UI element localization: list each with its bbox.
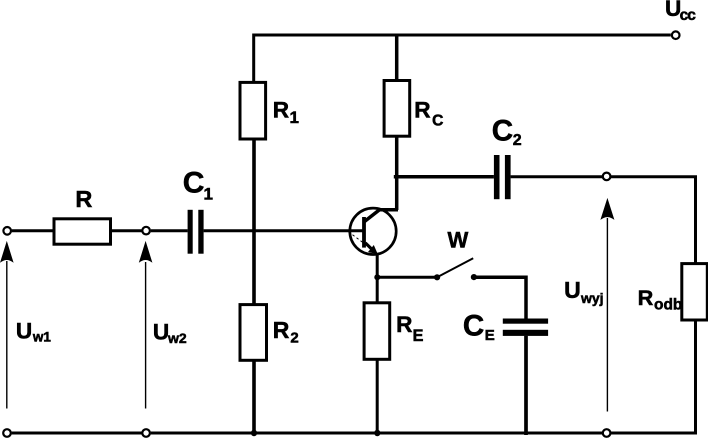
svg-text:wyj: wyj <box>580 290 604 306</box>
svg-text:R: R <box>75 186 92 212</box>
svg-text:C: C <box>432 113 443 130</box>
svg-text:E: E <box>413 327 424 345</box>
svg-text:cc: cc <box>680 7 697 24</box>
svg-text:odb: odb <box>654 296 682 313</box>
svg-text:U: U <box>153 320 169 345</box>
svg-text:R: R <box>273 317 290 343</box>
svg-text:w1: w1 <box>32 330 52 345</box>
svg-text:R: R <box>414 98 430 123</box>
svg-text:U: U <box>564 277 581 303</box>
svg-text:w2: w2 <box>167 330 187 346</box>
svg-text:C: C <box>183 167 205 200</box>
svg-text:R: R <box>273 98 289 123</box>
svg-text:C: C <box>492 114 513 147</box>
svg-text:C: C <box>463 309 484 342</box>
svg-text:R: R <box>638 285 654 310</box>
svg-text:2: 2 <box>513 132 522 149</box>
svg-text:U: U <box>16 319 32 344</box>
svg-text:E: E <box>485 327 495 344</box>
svg-text:1: 1 <box>204 185 213 204</box>
svg-text:2: 2 <box>290 329 298 346</box>
svg-text:1: 1 <box>290 108 299 127</box>
svg-text:W: W <box>448 227 469 252</box>
svg-text:R: R <box>396 312 412 337</box>
